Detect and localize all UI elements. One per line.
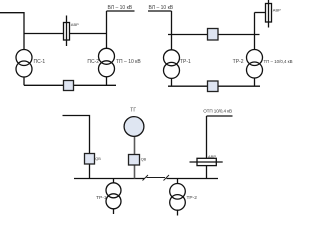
- svg-text:ВЛ – 10 кВ: ВЛ – 10 кВ: [149, 5, 174, 11]
- svg-text:АВР: АВР: [273, 8, 281, 13]
- svg-text:ПС-1: ПС-1: [34, 59, 46, 65]
- svg-text:АВР: АВР: [208, 154, 216, 159]
- svg-text:QВ: QВ: [95, 157, 101, 161]
- svg-text:ОТП 10/0,4 кВ: ОТП 10/0,4 кВ: [203, 109, 232, 114]
- svg-text:ТР-2: ТР-2: [233, 59, 244, 65]
- svg-text:ПС-2: ПС-2: [87, 59, 99, 65]
- svg-text:ВЛ – 10 кВ: ВЛ – 10 кВ: [108, 5, 133, 11]
- svg-text:ТГ: ТГ: [130, 108, 136, 114]
- svg-text:АВР: АВР: [71, 22, 79, 27]
- svg-text:ТП – 10/0,4 кВ: ТП – 10/0,4 кВ: [264, 59, 293, 64]
- svg-text:ТР-1: ТР-1: [96, 195, 107, 201]
- svg-text:QВ: QВ: [141, 158, 147, 162]
- svg-text:ТП – 10 кВ: ТП – 10 кВ: [116, 59, 141, 65]
- svg-text:ТР-2: ТР-2: [187, 195, 198, 201]
- svg-text:ТР-1: ТР-1: [180, 59, 191, 65]
